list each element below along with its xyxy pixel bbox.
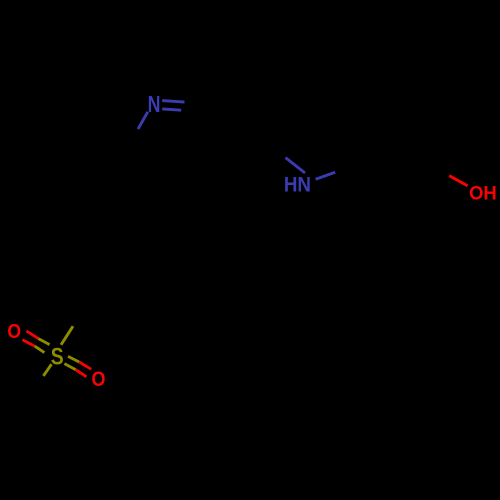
bond stub S-C chain up-right: [61, 326, 73, 345]
S=O2 double bond lower line olive half: [64, 364, 75, 370]
svg-text:O: O: [7, 321, 21, 344]
bond stub S-CH3 down-left: [43, 364, 51, 376]
S=O2 double bond upper line red half: [79, 362, 91, 369]
S=O1 double bond lower line olive half: [35, 346, 45, 352]
S=O1 double bond upper line red half: [26, 331, 38, 339]
svg-text:HN: HN: [284, 174, 311, 197]
S=O2 double bond lower line red half: [76, 370, 87, 377]
S=O1 double bond lower line red half: [22, 340, 34, 346]
svg-text:OH: OH: [469, 183, 497, 205]
bond stub N-C up-right of HN: [316, 172, 336, 179]
bond stub N1-C6: [138, 112, 148, 129]
double bond N1=C2 upper line: [162, 101, 184, 103]
svg-text:O: O: [92, 368, 106, 392]
bond stub N-C up-left of HN: [286, 158, 306, 173]
svg-text:S: S: [51, 343, 64, 371]
svg-text:N: N: [148, 92, 161, 118]
double bond N1=C2 lower line: [162, 109, 181, 110]
S=O1 double bond upper line olive half: [38, 339, 49, 345]
S=O2 double bond upper line olive half: [68, 356, 79, 362]
bond stub C-O of hydroxyl: [449, 176, 467, 186]
